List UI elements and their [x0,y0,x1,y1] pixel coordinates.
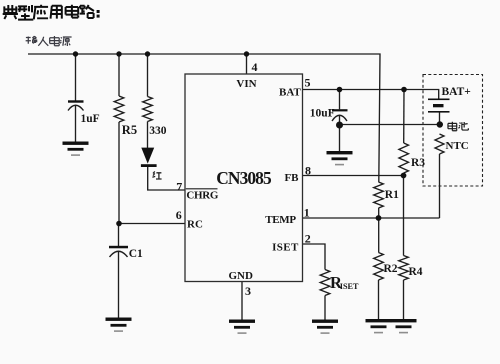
svg-text:10uF: 10uF [310,108,335,120]
svg-text:1: 1 [304,205,310,219]
svg-text:ISET: ISET [272,241,299,253]
svg-text:R5: R5 [122,123,137,137]
svg-text:TEMP: TEMP [265,214,296,226]
svg-text:7: 7 [176,179,182,193]
svg-text:6: 6 [176,208,182,222]
svg-text:R4: R4 [409,266,423,278]
svg-text:C1: C1 [129,248,143,260]
svg-text:CHRG: CHRG [186,190,219,202]
svg-text:GND: GND [228,270,253,282]
svg-text:BAT: BAT [279,87,301,99]
svg-text:5: 5 [305,76,311,90]
svg-text:R2: R2 [384,263,398,275]
svg-text:NTC: NTC [446,140,469,152]
svg-text:4: 4 [252,60,258,74]
svg-text:ISET: ISET [340,282,359,291]
svg-text:FB: FB [284,172,299,184]
svg-text:BAT+: BAT+ [442,86,471,98]
svg-text:1uF: 1uF [81,113,100,125]
svg-text:3: 3 [245,284,251,298]
svg-text:2: 2 [305,231,311,245]
svg-text:8: 8 [305,163,311,177]
svg-text:RC: RC [187,219,203,231]
svg-text:CN3085: CN3085 [216,168,272,188]
svg-text:VIN: VIN [236,78,256,90]
svg-text:330: 330 [149,125,167,137]
svg-text:R1: R1 [385,189,399,201]
svg-text:R3: R3 [411,157,425,169]
